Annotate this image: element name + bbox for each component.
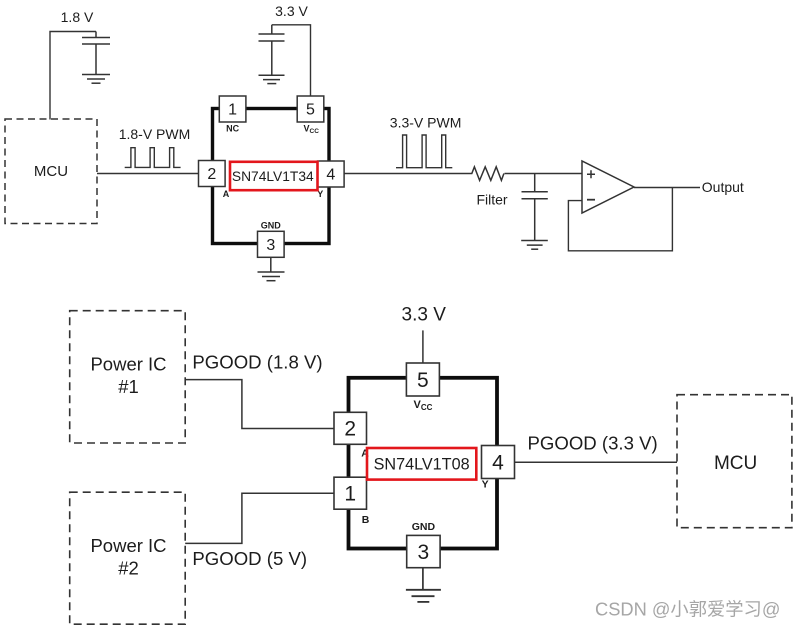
svg-text:5: 5 — [306, 102, 315, 119]
svg-text:3.3 V: 3.3 V — [402, 305, 447, 326]
svg-text:4: 4 — [326, 167, 335, 184]
Power IC #2 dashed box — [70, 492, 186, 624]
svg-text:4: 4 — [492, 451, 504, 474]
ground (pin 3, U2) — [406, 590, 441, 602]
MCU (top) dashed box — [5, 119, 97, 224]
Power IC #1 dashed box — [70, 311, 186, 443]
resistor (filter) — [470, 167, 504, 181]
op-amp A1 triangle — [582, 161, 634, 213]
feedback wire — [568, 188, 672, 251]
ground (C1) — [82, 75, 110, 84]
svg-text:3: 3 — [418, 541, 430, 564]
wire op-amp output — [634, 187, 700, 189]
wire pin 4 to filter resistor — [344, 173, 470, 175]
wire resistor to op-amp — [505, 173, 583, 175]
ground (C3) — [521, 241, 548, 250]
svg-text:Filter: Filter — [476, 192, 507, 208]
pin 5 box — [297, 96, 324, 122]
svg-text:NC: NC — [226, 124, 239, 134]
svg-text:3.3 V: 3.3 V — [275, 3, 308, 19]
svg-text:Y: Y — [482, 479, 489, 491]
svg-text:PGOOD (3.3 V): PGOOD (3.3 V) — [528, 433, 658, 454]
IC U2 SN74LV1T08 outline — [349, 378, 498, 549]
svg-text:Output: Output — [702, 179, 744, 195]
wire 3.3V to pin 5 — [272, 25, 311, 96]
wire Power IC #2 to pin 1 (U2) — [185, 493, 334, 543]
svg-text:2: 2 — [207, 166, 216, 183]
IC U1 SN74LV1T34 outline — [213, 109, 330, 244]
ground (C2) — [259, 75, 285, 83]
svg-text:1: 1 — [228, 102, 237, 119]
MCU (bottom) dashed box — [677, 395, 792, 528]
wire pin 3 to ground — [270, 257, 272, 272]
svg-text:#2: #2 — [118, 557, 139, 578]
capacitor C2 (3.3V decoupling) — [259, 25, 285, 76]
pin 2 box — [199, 161, 226, 187]
pin 4 box — [318, 161, 345, 187]
wire 1.8V rail to MCU — [50, 32, 96, 120]
svg-text:B: B — [362, 514, 370, 526]
red highlight box U2 — [367, 448, 476, 480]
op-amp plus input mark — [587, 170, 595, 178]
pin 2 box (U2) — [334, 412, 367, 444]
3.3-V PWM waveform — [396, 135, 452, 168]
svg-text:A: A — [223, 189, 230, 199]
pin 1 box — [219, 96, 246, 122]
svg-text:Power IC: Power IC — [90, 535, 166, 556]
red highlight box U1 — [230, 162, 318, 190]
ground (pin 3, U1) — [258, 272, 285, 281]
svg-text:1.8 V: 1.8 V — [61, 9, 94, 25]
capacitor C3 (filter) — [522, 174, 548, 241]
wire Power IC #1 to pin 2 (U2) — [185, 380, 334, 429]
svg-text:1: 1 — [344, 483, 356, 506]
pin 4 box (U2) — [482, 446, 515, 479]
svg-text:GND: GND — [261, 221, 282, 231]
svg-text:2: 2 — [344, 418, 356, 441]
svg-text:SN74LV1T08: SN74LV1T08 — [374, 456, 470, 474]
svg-text:PGOOD (5 V): PGOOD (5 V) — [192, 548, 307, 569]
pin 5 box (U2) — [406, 363, 439, 396]
svg-text:3: 3 — [266, 237, 275, 254]
svg-text:PGOOD (1.8 V): PGOOD (1.8 V) — [192, 352, 322, 373]
svg-text:MCU: MCU — [34, 163, 68, 180]
op-amp minus input mark — [587, 199, 595, 201]
svg-text:#1: #1 — [118, 376, 139, 397]
svg-text:Power IC: Power IC — [90, 354, 166, 375]
svg-text:1.8-V PWM: 1.8-V PWM — [119, 126, 191, 142]
svg-text:MCU: MCU — [714, 453, 757, 474]
wire pin 4 (U2) to MCU — [515, 461, 678, 463]
capacitor C1 (1.8V decoupling) — [82, 32, 110, 75]
wire pin 3 to ground (U2) — [422, 568, 424, 590]
svg-text:GND: GND — [412, 521, 436, 533]
pin 3 box (U2) — [407, 535, 440, 567]
wire 3.3V to pin 5 (U2) — [422, 330, 424, 363]
pin 1 box (U2) — [334, 477, 367, 509]
svg-text:3.3-V PWM: 3.3-V PWM — [390, 115, 462, 131]
1.8-V PWM waveform — [125, 148, 181, 168]
svg-text:CSDN @小郭爱学习@: CSDN @小郭爱学习@ — [595, 599, 780, 620]
svg-text:SN74LV1T34: SN74LV1T34 — [232, 169, 314, 184]
pin 3 box — [258, 231, 285, 257]
svg-text:5: 5 — [417, 369, 429, 392]
wire MCU to pin 2 — [97, 173, 199, 175]
